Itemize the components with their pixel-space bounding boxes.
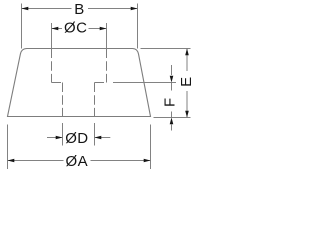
arrowhead D right (pointing left) [95,136,102,140]
dimension B line left segment [22,8,72,10]
dimension F lower stub [171,112,173,118]
hidden counterbore C left wall [51,49,53,83]
dimension F lower arrow tail [171,125,173,131]
arrowhead B left [22,7,29,11]
arrowhead E top [185,49,189,56]
dimension A extension line right [150,125,152,170]
dimension B extension line left [21,4,23,49]
extension line from hidden step to F [113,82,176,84]
dimension A line left segment [8,160,64,162]
dimension D left tail [47,137,63,139]
svg-text:ØD: ØD [65,130,88,147]
dimension A extension line left [7,125,9,170]
arrowhead A right [144,159,151,163]
arrowhead B right [131,7,138,11]
hidden hole D right wall [94,83,96,117]
svg-text:ØC: ØC [64,20,87,37]
arrowhead E bottom [185,111,189,118]
dimension D right tail [95,137,111,139]
dimension E line bottom segment [186,91,188,118]
svg-text:B: B [74,1,84,18]
part body outline (trapezoid cross-section) [8,49,151,117]
dimension E line top segment [186,49,188,72]
dimension F upper stub [171,83,173,91]
arrowhead A left [8,159,15,163]
arrowhead C right [100,27,107,31]
extension line from bottom face to E and F [154,117,191,119]
arrowhead F bottom (pointing up) [170,118,174,125]
dimension C extension line left [51,23,53,49]
dimension A line right segment [91,160,151,162]
dimension C extension line right [106,23,108,49]
dimension C line right segment [89,28,107,30]
arrowhead F top (pointing down) [170,76,174,83]
arrowhead C left [52,27,59,31]
dimension F upper arrow tail [171,65,173,75]
dimension D extension line left [62,123,64,146]
dimension C line left segment [52,28,63,30]
hidden step right [95,82,107,84]
hidden counterbore C right wall [106,49,108,83]
hidden step left [52,82,63,84]
dimension B extension line right [137,4,139,49]
arrowhead D left (pointing right) [56,136,63,140]
svg-text:ØA: ØA [66,153,88,170]
extension line from top face to E [141,48,191,50]
hidden hole D left wall [62,83,64,117]
dimension B line right segment [88,8,138,10]
svg-text:E: E [178,76,195,86]
dimension D extension line right [94,123,96,146]
svg-text:F: F [162,97,179,107]
